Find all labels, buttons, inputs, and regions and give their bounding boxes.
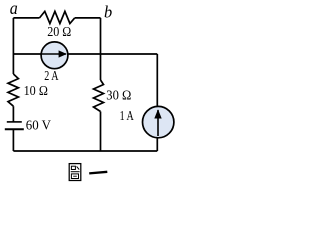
svg-text:a: a [10, 0, 18, 18]
wire left vertical (a down to bottom) [12, 18, 14, 74]
current source 1A [143, 106, 174, 137]
svg-text:30 Ω: 30 Ω [106, 87, 131, 102]
label 20 ohm [47, 24, 71, 39]
svg-text:1 A: 1 A [120, 108, 134, 123]
svg-text:b: b [104, 3, 112, 22]
node a label [10, 0, 18, 18]
resistor 10ohm [8, 74, 18, 106]
voltage source 60V battery [5, 122, 24, 129]
wire top (node a to node b) [13, 17, 100, 19]
caption: character tu (figure) drawn as shapes [69, 164, 81, 181]
resistor 30ohm [94, 80, 104, 112]
label 30 ohm [106, 87, 131, 102]
label 2 A [44, 68, 58, 83]
caption: character yi (one) drawn as line [89, 172, 107, 174]
resistor 20ohm [40, 11, 75, 23]
label 1 A [120, 108, 134, 123]
wire left below battery to bottom [12, 130, 14, 151]
wire middle horizontal [13, 53, 157, 55]
wire bottom [13, 150, 157, 152]
svg-text:2 A: 2 A [44, 68, 58, 83]
svg-text:60 V: 60 V [26, 117, 51, 132]
label 60 V [26, 117, 51, 132]
current source 2A [41, 42, 68, 69]
svg-text:10 Ω: 10 Ω [24, 83, 48, 98]
node b label [104, 3, 112, 22]
wire node b vertical bottom [100, 112, 102, 152]
label 10 ohm [24, 83, 48, 98]
wire right vertical bottom [156, 138, 158, 151]
wire left between resistor and battery [12, 106, 14, 121]
wire right vertical top [156, 54, 158, 107]
svg-text:20 Ω: 20 Ω [47, 24, 71, 39]
wire node b vertical top [100, 18, 102, 80]
